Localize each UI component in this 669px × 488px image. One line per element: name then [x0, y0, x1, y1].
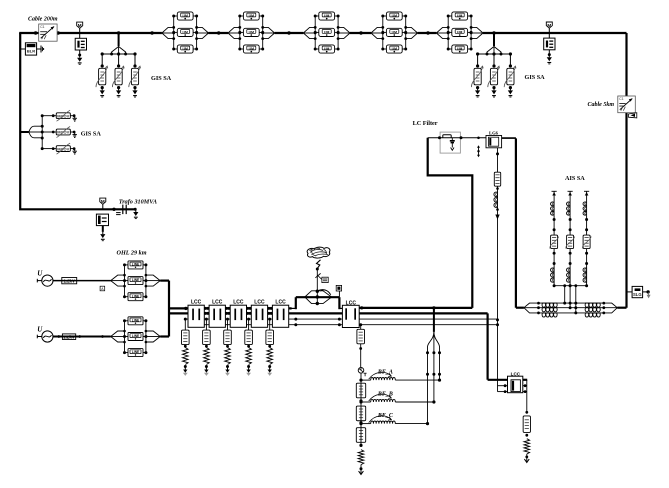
svg-text:LINE: LINE [132, 350, 139, 354]
svg-text:SLG: SLG [633, 292, 642, 297]
svg-text:LCC: LCC [275, 300, 286, 306]
svg-text:UM: UM [324, 47, 329, 51]
svg-text:UM: UM [324, 14, 329, 18]
svg-text:UM: UM [457, 47, 462, 51]
svg-text:LCC: LCC [191, 300, 202, 306]
svg-text:C1: C1 [40, 25, 44, 29]
svg-text:LCC: LCC [511, 372, 521, 377]
svg-text:C1: C1 [619, 97, 623, 101]
svg-text:LC Filter: LC Filter [413, 120, 438, 127]
svg-text:Trafo 310MVA: Trafo 310MVA [119, 198, 157, 205]
svg-text:OHL 29 km: OHL 29 km [117, 249, 147, 256]
svg-text:LCC: LCC [254, 300, 265, 306]
svg-text:M: M [101, 199, 105, 204]
svg-text:LCC: LCC [233, 300, 244, 306]
svg-text:LG6: LG6 [489, 131, 499, 136]
svg-text:LINE: LINE [132, 318, 139, 322]
svg-text:GIS SA: GIS SA [525, 74, 546, 81]
svg-text:UM: UM [183, 14, 188, 18]
svg-text:AIS SA: AIS SA [565, 175, 585, 182]
svg-text:UM: UM [249, 14, 254, 18]
svg-text:Cable 200m: Cable 200m [28, 17, 58, 23]
svg-text:UM: UM [457, 14, 462, 18]
svg-text:GIS SA: GIS SA [151, 75, 172, 82]
svg-text:UM: UM [183, 30, 188, 34]
svg-text:UM: UM [392, 47, 397, 51]
svg-text:Cable 5km: Cable 5km [588, 102, 615, 108]
svg-text:LINE: LINE [132, 294, 139, 298]
svg-text:UM: UM [457, 30, 462, 34]
svg-text:GIS SA: GIS SA [81, 131, 102, 138]
svg-text:UM: UM [183, 47, 188, 51]
svg-text:UM: UM [324, 30, 329, 34]
svg-text:LINE: LINE [132, 334, 139, 338]
svg-text:UM: UM [392, 30, 397, 34]
svg-text:M: M [78, 23, 82, 28]
svg-text:BLR: BLR [27, 49, 35, 54]
svg-text:LCC: LCC [346, 301, 357, 307]
svg-text:M: M [547, 23, 551, 28]
svg-text:LINE: LINE [132, 278, 139, 282]
svg-text:UM: UM [249, 47, 254, 51]
svg-text:UM: UM [249, 30, 254, 34]
svg-text:UM: UM [392, 14, 397, 18]
svg-text:LINE: LINE [132, 263, 139, 267]
svg-text:LCC: LCC [212, 300, 223, 306]
